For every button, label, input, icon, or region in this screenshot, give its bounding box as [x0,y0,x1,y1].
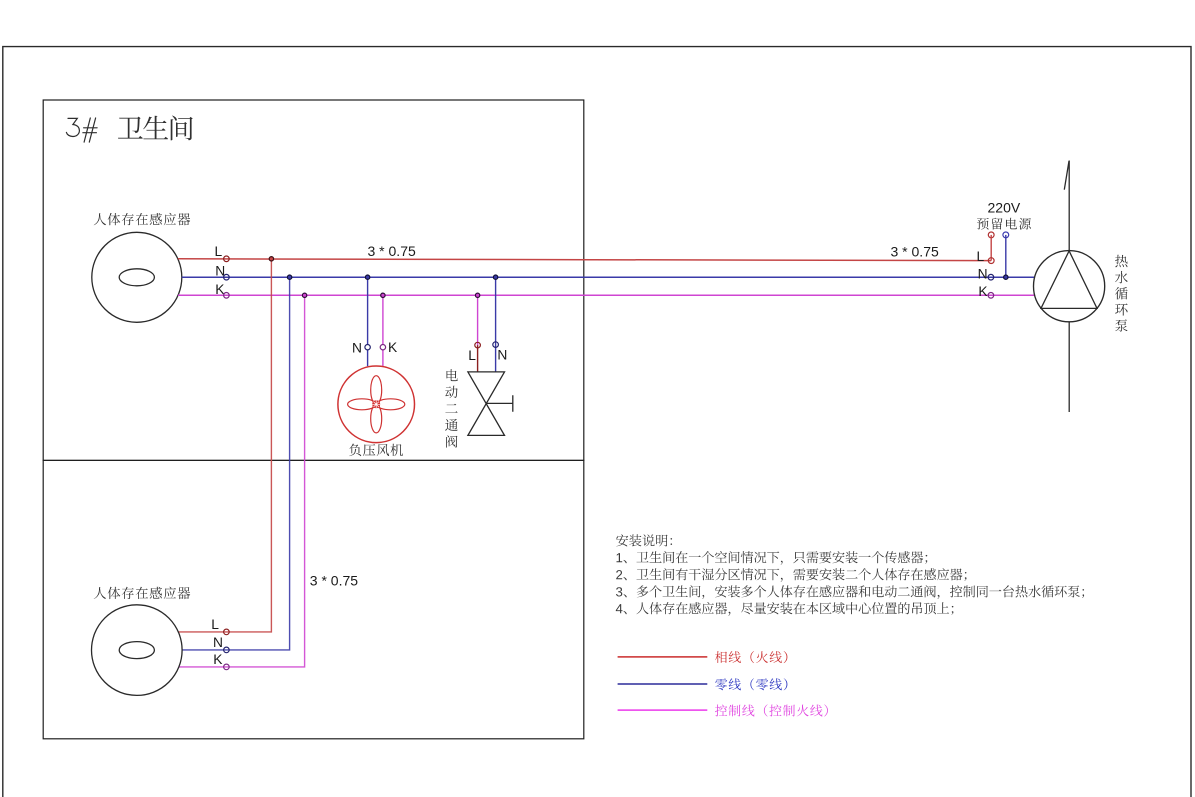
pump riser pipe (top) [1068,161,1070,251]
legend control line sample (magenta) [618,709,708,711]
svg-text:L: L [977,249,985,264]
fan label 负压风机 [349,444,403,457]
wire: control K bus (magenta) sensor1 to pump [178,294,1035,296]
wire: phase L bus (red) sensor1 to pump [178,259,991,261]
sensor1 terminal circle K [224,293,230,299]
pump label 热水循环泵 (vertical) [1115,255,1128,332]
220V phase terminal circle (red) [988,232,994,238]
svg-text:3 * 0.75: 3 * 0.75 [310,573,358,589]
fan blade right petal [376,399,405,410]
note line 2 [616,568,966,582]
svg-text:K: K [978,284,988,299]
note line 1 [617,551,928,565]
svg-text:N: N [497,347,507,362]
junction dot blue at valve drop [493,275,497,279]
fan blade top petal [371,376,382,405]
legend label 相线（火线） [715,651,787,663]
junction dot magenta at fan drop [381,293,385,297]
fan hub [372,400,380,408]
human presence sensor 1 label 人体存在感应器 [94,213,191,225]
svg-text:K: K [213,652,223,667]
sensor2 terminal circle L [224,629,230,635]
wire: magenta drop to fan K [382,295,384,366]
junction dot red at sensor2 drop [269,257,273,261]
wire: magenta drop to sensor2 [179,295,305,667]
junction dot blue at 220V neutral [1004,275,1008,279]
svg-text:K: K [388,340,398,355]
fan blade bottom petal [371,404,382,433]
room outline 3# bathroom (upper zone) [43,100,584,460]
legend neutral line sample (blue) [618,683,708,685]
note line 4 [616,602,954,616]
svg-text:3 * 0.75: 3 * 0.75 [891,244,939,260]
svg-text:L: L [468,348,476,363]
wire: magenta drop to valve L [477,295,479,345]
title "3#" [66,118,97,142]
junction dot magenta at sensor2 drop [302,293,306,297]
svg-text:N: N [978,266,988,281]
notes heading 安装说明： [616,534,672,546]
fan terminal circle N [365,345,370,350]
title "卫生间" [118,116,193,141]
wire: 220V neutral lead blue [1005,235,1007,277]
svg-text:N: N [213,635,223,650]
human presence sensor 2 body [92,605,183,696]
valve terminal circle N [493,342,499,348]
wire: 220V phase lead red [990,235,992,261]
label 预留电源 [977,218,1031,230]
svg-text:3 * 0.75: 3 * 0.75 [368,243,416,259]
pump L terminal circle (red) [988,258,994,264]
legend label 控制线（控制火线） [715,704,828,716]
pump K terminal circle [988,293,994,299]
wire: blue drop to fan N [367,277,369,366]
pump N terminal circle [988,274,994,280]
wire: red drop to sensor2 [178,259,271,632]
220V neutral terminal circle (blue) [1003,232,1009,238]
legend phase line sample (red) [618,656,708,658]
sensor1 terminal circle L [224,256,230,262]
wire: blue drop to sensor2 [182,277,290,650]
valve actuator stem [486,395,513,411]
hot water circulation pump body [1034,251,1105,322]
human presence sensor 1 lens ellipse [119,269,154,286]
svg-text:220V: 220V [988,199,1021,215]
fan blade left petal [348,399,377,410]
wire: blue drop to valve N [495,277,497,372]
fan terminal circle K [380,345,385,350]
junction dot blue at sensor2 drop [287,275,291,279]
svg-text:N: N [352,340,362,355]
note line 3 [616,585,1084,599]
valve body (two-way valve bowtie) [468,372,505,436]
sensor2 terminal circle K [224,664,230,670]
junction dot blue at fan drop [365,275,369,279]
sensor1 terminal circle N [224,274,230,280]
exhaust fan body circle [338,366,415,443]
pump impeller triangle [1041,251,1097,309]
svg-text:L: L [211,617,219,632]
valve terminal circle L [475,342,481,348]
human presence sensor 2 lens ellipse [119,642,154,659]
junction dot magenta at valve drop [475,293,479,297]
wire: dark red valve L lead [477,345,479,372]
human presence sensor 1 body [92,232,182,322]
sensor2 terminal circle N [224,647,230,653]
human presence sensor 2 label 人体存在感应器 [94,587,191,599]
wire: neutral N bus (blue) sensor1 to pump [182,276,1035,278]
valve label 电动二通阀 (vertical) [445,369,458,448]
pump riser pipe (bottom) [1068,322,1070,412]
legend label 零线（零线） [715,678,787,690]
room lower zone (wet/dry partition) [43,460,584,738]
svg-text:L: L [215,244,223,259]
pipe break mark [1064,161,1069,190]
